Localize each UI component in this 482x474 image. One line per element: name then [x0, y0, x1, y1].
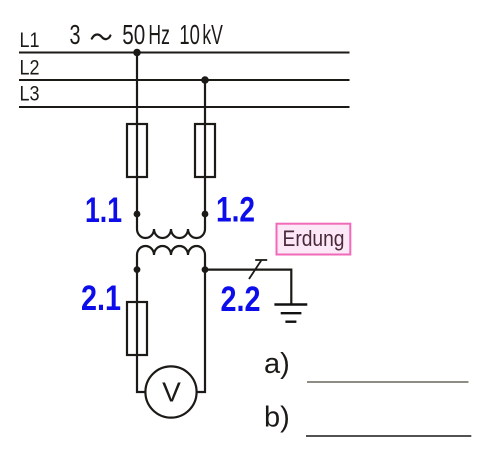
wire from L2 to primary terminal 1.2: [204, 80, 206, 214]
ground bar 3: [285, 321, 296, 323]
earthing switch blade: [249, 260, 262, 279]
wire secondary right to voltmeter: [197, 270, 205, 392]
node terminal 2.2: [202, 266, 209, 273]
answer line a: [307, 381, 469, 383]
node on L1: [133, 49, 141, 57]
node terminal 1.1: [134, 211, 141, 218]
svg-text:L3: L3: [20, 82, 40, 106]
earthing switch top bar: [255, 259, 267, 261]
wire secondary left to voltmeter: [137, 270, 145, 392]
node terminal 1.2: [202, 211, 209, 218]
svg-text:Hz: Hz: [148, 19, 170, 50]
ground bar 2: [281, 312, 302, 314]
voltmeter P1: [145, 366, 196, 417]
answer line b: [306, 435, 471, 437]
node on L2: [201, 76, 209, 84]
svg-text:kV: kV: [202, 19, 223, 50]
fuse F3: [127, 302, 147, 355]
wire from L1 to primary terminal 1.1: [136, 53, 138, 215]
bus line L3: [19, 106, 350, 108]
Erdung callout box: [277, 224, 351, 255]
bus line L2: [19, 79, 350, 81]
svg-text:V: V: [162, 377, 181, 408]
svg-text:10: 10: [179, 19, 200, 50]
ground bar 1: [274, 303, 307, 305]
svg-text:3: 3: [70, 19, 81, 50]
svg-text:1.1: 1.1: [85, 190, 122, 230]
svg-text:2.2: 2.2: [221, 279, 261, 319]
wire terminal 2.2 to ground: [205, 270, 291, 305]
svg-text:L2: L2: [20, 56, 40, 80]
transformer T1 secondary winding: [137, 246, 205, 270]
svg-text:1.2: 1.2: [216, 190, 255, 230]
fuse F2: [195, 124, 215, 177]
transformer T1 primary winding: [137, 214, 205, 238]
svg-text:2.1: 2.1: [81, 278, 121, 318]
svg-text:a): a): [264, 348, 290, 380]
svg-text:L1: L1: [20, 28, 40, 52]
fuse F1: [127, 124, 147, 177]
source label 3 ~ 50Hz 10kV: [70, 19, 224, 50]
svg-text:50: 50: [122, 19, 145, 50]
node terminal 2.1: [134, 266, 141, 273]
bus line L1: [19, 52, 350, 54]
svg-text:b): b): [264, 402, 290, 434]
svg-text:Erdung: Erdung: [283, 226, 345, 251]
